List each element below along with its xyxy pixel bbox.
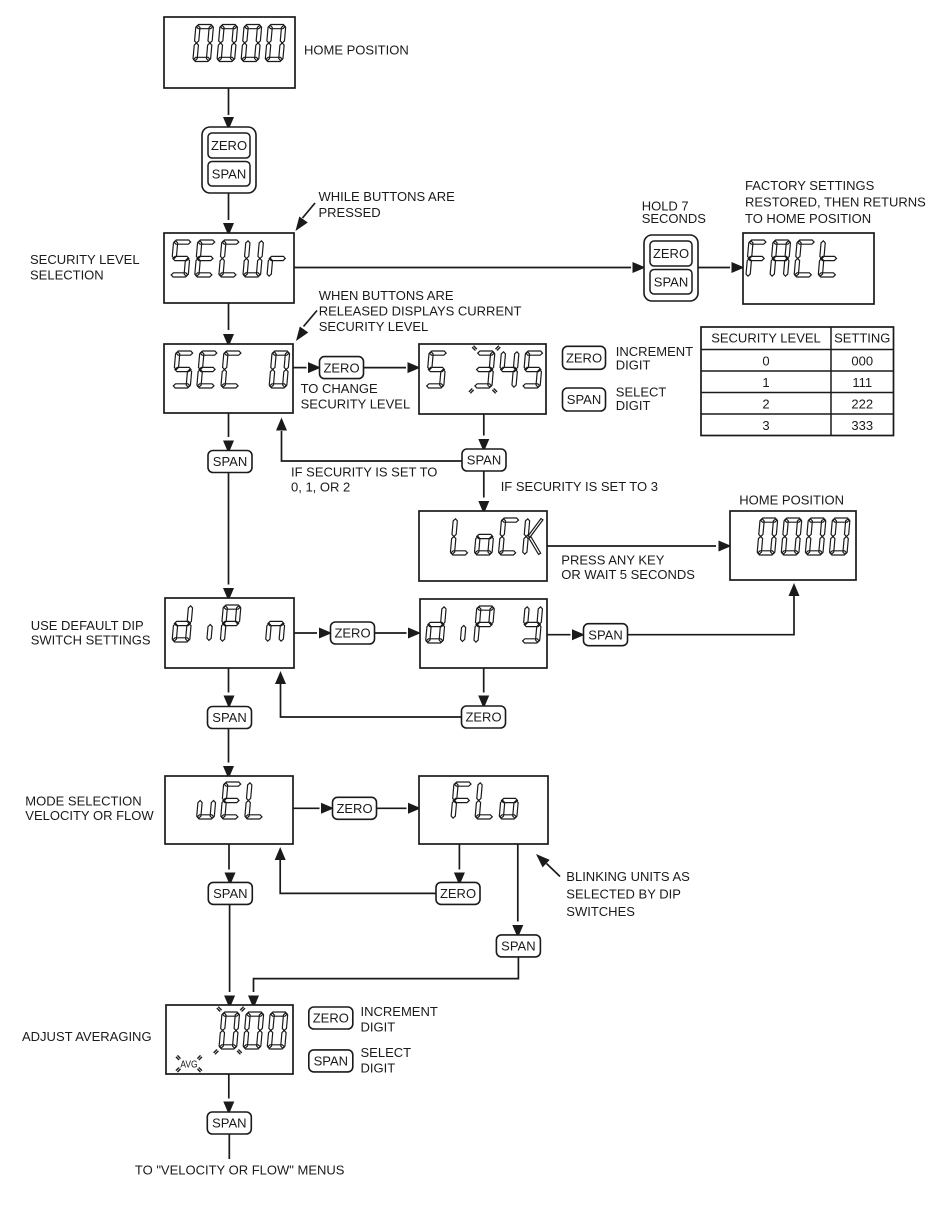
svg-text:ZERO: ZERO [566,351,602,366]
svg-text:DIGIT: DIGIT [616,357,651,372]
arrow into diPn [223,588,234,601]
svg-text:TO CHANGE: TO CHANGE [301,381,378,396]
arrow into ZERO dip [319,628,332,639]
svg-text:SPAN: SPAN [212,710,246,725]
svg-text:222: 222 [851,396,873,411]
svg-text:3: 3 [762,418,769,433]
button SPAN [208,882,252,904]
wire SPAN to LoCK [483,471,485,498]
arrow into FACt [732,262,745,273]
label HOME POSITION 2 [739,493,844,508]
wire zero/span to SECUr [228,193,230,220]
label SECURITY LEVEL SELECTION [30,252,140,283]
label PRESS ANY KEY OR WAIT [561,552,695,582]
button ZERO [331,622,375,644]
arrow up into home2 bottom [789,583,800,596]
seven-seg text "0000" home [193,25,286,62]
label SELECT DIGIT avg [361,1045,412,1076]
svg-text:BLINKING UNITS AS: BLINKING UNITS AS [566,869,690,884]
svg-text:SELECTED BY DIP: SELECTED BY DIP [566,886,681,901]
wire diPn to ZERO [294,632,317,634]
button ZERO [436,882,480,904]
svg-text:ZERO: ZERO [653,246,689,261]
display box SECUr [164,233,294,303]
svg-text:DIGIT: DIGIT [616,398,651,413]
arrow into zero/span group [223,117,234,130]
wire diPn down [228,668,230,693]
svg-text:SPAN: SPAN [467,453,501,468]
arrow up into SEC0 bottom [276,418,287,431]
display box LoCK [419,511,547,581]
svg-text:SECURITY LEVEL: SECURITY LEVEL [30,252,140,267]
svg-text:SELECT: SELECT [361,1045,412,1060]
seven-seg text " LoCK" [450,518,542,555]
button SPAN [563,388,606,411]
wire SECUr to SEC0 [228,303,230,330]
arrow into hold group [633,262,646,273]
button ZERO [309,1007,353,1029]
svg-text:SPAN: SPAN [212,166,246,181]
svg-text:TO HOME POSITION: TO HOME POSITION [745,211,871,226]
seven-seg text "000" with blinking digit and AVG [176,1007,288,1072]
wire uEL to ZERO [293,807,320,809]
arrow into diPY [408,628,421,639]
button SPAN [208,707,252,729]
label IF SECURITY IS SET TO 0,1,2 [291,465,437,495]
svg-text:WHEN BUTTONS ARE: WHEN BUTTONS ARE [319,288,454,303]
svg-text:DIGIT: DIGIT [361,1061,396,1076]
svg-text:DIGIT: DIGIT [361,1020,396,1035]
seven-seg text "FLo" [451,782,518,819]
svg-text:ZERO: ZERO [211,138,247,153]
svg-text:SETTING: SETTING [834,331,890,346]
seven-seg text "S 345" with blinking 3 [427,346,543,394]
arrow when-buttons to SEC0 corner [304,311,318,327]
button group ZERO/SPAN entry [202,127,256,193]
seven-seg text "SECUr" [171,240,285,277]
arrow while-buttons to SECUr corner [303,203,316,218]
svg-text:SECURITY LEVEL: SECURITY LEVEL [319,319,429,334]
display box 0000 home2 [730,511,856,580]
arrow up into diPn bottom [275,671,286,684]
wire diPY to SPAN [547,634,571,636]
wire ZERO to diPY [375,632,407,634]
wire SECUr to hold group [294,267,631,269]
button SPAN [496,935,540,957]
svg-text:MODE SELECTION: MODE SELECTION [25,793,141,808]
svg-text:SPAN: SPAN [654,274,688,289]
svg-text:WHILE BUTTONS ARE: WHILE BUTTONS ARE [319,189,456,204]
wire LoCK to home2 [547,545,716,547]
label WHILE BUTTONS ARE PRESSED [319,189,456,220]
button SPAN [309,1050,353,1072]
label TO VELOCITY OR FLOW MENUS [135,1163,345,1178]
wire SPAN flo to avg box [254,957,519,992]
arrow into ZERO uel loop [454,873,465,886]
svg-text:IF SECURITY IS SET TO 3: IF SECURITY IS SET TO 3 [501,479,658,494]
arrow into home2 [719,541,732,552]
wire SPAN bottom down [228,1134,230,1159]
svg-text:SPAN: SPAN [588,627,622,642]
wire hold group to FACt [698,267,730,269]
svg-text:0, 1, OR 2: 0, 1, OR 2 [291,479,350,494]
label USE DEFAULT DIP SWITCH SETTINGS [31,618,151,647]
button SPAN [208,451,252,473]
wire S345 down to SPAN [483,414,485,436]
wire SPAN down to uEL [228,729,230,763]
arrow into ZERO loop dip [478,696,489,709]
svg-text:TO "VELOCITY OR FLOW" MENUS: TO "VELOCITY OR FLOW" MENUS [135,1163,345,1178]
label HOLD 7 SECONDS [642,199,707,227]
svg-text:ADJUST AVERAGING: ADJUST AVERAGING [22,1029,152,1044]
svg-text:SPAN: SPAN [567,392,601,407]
svg-text:ZERO: ZERO [323,360,359,375]
svg-text:VELOCITY OR FLOW: VELOCITY OR FLOW [25,808,154,823]
display box FLo [419,776,548,844]
svg-text:INCREMENT: INCREMENT [361,1004,438,1019]
button SPAN [462,449,506,471]
svg-text:SELECTION: SELECTION [30,268,104,283]
label MODE SELECTION VELOCITY OR FLOW [25,793,154,822]
arrow into SECUr [223,223,234,236]
svg-text:111: 111 [852,375,872,390]
svg-text:IF SECURITY IS SET TO: IF SECURITY IS SET TO [291,465,437,480]
button ZERO [462,706,506,728]
label INCREMENT DIGIT avg [361,1004,438,1035]
svg-text:1: 1 [762,375,769,390]
arrow into SPAN left [223,441,234,454]
arrow into SPAN right [478,439,489,452]
arrow into FLo [408,803,421,814]
svg-text:USE DEFAULT DIP: USE DEFAULT DIP [31,618,144,633]
wire ZERO to S345 [364,367,407,369]
svg-text:SECONDS: SECONDS [642,211,707,226]
seven-seg text "diP Y" [426,606,543,643]
display box HOME 0000 [164,17,295,88]
wire SPAN uel down to avg box [229,905,231,993]
seven-seg text "FACt" [746,240,836,277]
wire SPAN down to diPn [228,473,230,585]
display box SEC 0 [164,344,293,413]
label TO CHANGE SECURITY LEVEL [301,381,411,412]
wire FLo down to SPAN [517,844,519,922]
display box diP Y [420,599,547,668]
label IF SECURITY IS SET TO 3 [501,479,658,494]
arrow into uEL [223,766,234,779]
arrow into avg box left [224,996,235,1009]
svg-text:PRESSED: PRESSED [319,205,381,220]
display box avg 000 [166,1005,293,1074]
svg-text:2: 2 [762,396,769,411]
svg-text:ZERO: ZERO [334,626,370,641]
svg-text:ZERO: ZERO [336,801,372,816]
label WHEN BUTTONS ARE RELEASED [319,288,522,334]
arrow into SPAN flo [512,925,523,938]
seven-seg text "diP n" [172,605,284,642]
arrow into SEC0 [223,334,234,347]
wire SEC0 to ZERO [293,367,307,369]
svg-text:000: 000 [851,353,873,368]
svg-text:SPAN: SPAN [213,454,247,469]
arrow into SPAN dip right [572,629,585,640]
svg-text:PRESS ANY KEY: PRESS ANY KEY [561,552,664,567]
label ADJUST AVERAGING [22,1029,152,1044]
wire zero loop to uEL [280,860,436,893]
svg-text:333: 333 [851,418,873,433]
wire uEL down [228,844,230,870]
svg-text:RELEASED DISPLAYS CURRENT: RELEASED DISPLAYS CURRENT [319,303,522,318]
wire home to zero/span [228,88,230,115]
table security level settings [701,327,894,436]
svg-text:SPAN: SPAN [213,886,247,901]
svg-text:RESTORED, THEN RETURNS: RESTORED, THEN RETURNS [745,195,926,210]
display box diP n [165,598,294,668]
seven-seg text "0000" home2 [757,518,850,555]
display box FACt [743,233,874,304]
wire loop span to SEC0 [282,431,463,461]
svg-text:ZERO: ZERO [440,886,476,901]
wire avg down [228,1074,230,1099]
wire FLo down to ZERO [458,844,460,870]
label INCREMENT DIGIT [616,344,693,373]
arrow into avg box right [248,996,259,1009]
svg-text:ZERO: ZERO [465,710,501,725]
arrow up into uEL bottom [275,847,286,860]
button group ZERO/SPAN hold 7s [644,235,698,301]
seven-seg text "SEC 0" [173,351,289,388]
svg-text:SECURITY LEVEL: SECURITY LEVEL [301,396,411,411]
wire SPAN up to home2 [628,596,795,635]
display box S 345 [419,344,546,414]
svg-text:SPAN: SPAN [212,1116,246,1131]
label BLINKING UNITS AS SELECTED [566,869,690,919]
arrow into SPAN uel [225,873,236,886]
button ZERO [563,346,606,369]
svg-text:SECURITY LEVEL: SECURITY LEVEL [711,331,821,346]
wire SEC0 down to SPAN [228,413,230,437]
label SELECT DIGIT [616,385,667,414]
svg-text:FACTORY SETTINGS: FACTORY SETTINGS [745,178,875,193]
svg-text:HOME POSITION: HOME POSITION [304,43,409,58]
svg-text:0: 0 [762,353,769,368]
arrow into LoCK [478,501,489,514]
button ZERO [320,357,364,379]
svg-text:SPAN: SPAN [501,939,535,954]
label HOME POSITION [304,43,409,58]
wire ZERO to FLo [377,807,407,809]
button ZERO [333,797,377,819]
svg-text:OR WAIT 5 SECONDS: OR WAIT 5 SECONDS [561,567,695,582]
arrow blinking to FLo corner [547,864,561,877]
wire diPY down [483,668,485,693]
arrow into S345 [408,362,421,373]
svg-text:HOME POSITION: HOME POSITION [739,493,844,508]
svg-text:SPAN: SPAN [314,1054,348,1069]
arrow into SPAN below diPn [224,696,235,709]
arrow into ZERO vel [321,803,334,814]
arrow into SPAN bottom [223,1102,234,1115]
svg-text:SWITCH SETTINGS: SWITCH SETTINGS [31,632,151,647]
arrow into ZERO change [308,362,321,373]
wire zero loop to diPn [281,684,462,717]
svg-text:AVG: AVG [180,1058,197,1070]
button SPAN [207,1112,251,1134]
button SPAN [584,624,628,646]
label FACTORY SETTINGS RESTORED [745,178,926,226]
svg-text:SWITCHES: SWITCHES [566,904,635,919]
svg-text:ZERO: ZERO [313,1011,349,1026]
display box uEL [165,776,293,844]
seven-seg text "uEL" [197,782,262,819]
